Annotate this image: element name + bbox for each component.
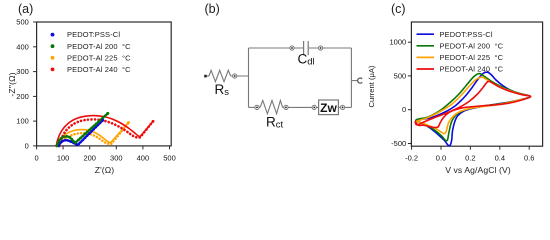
- svg-text:Zw: Zw: [320, 101, 337, 115]
- svg-text:Current (μA): Current (μA): [367, 65, 376, 107]
- terminal before Rct: [255, 105, 259, 109]
- wire Rs to node: [231, 75, 249, 77]
- orange data dots: [59, 123, 128, 146]
- red data dots: [60, 119, 153, 146]
- svg-text:500: 500: [394, 71, 407, 80]
- svg-text:PEDOT-Al 200 °C: PEDOT-Al 200 °C: [67, 42, 131, 51]
- svg-text:300: 300: [110, 154, 123, 163]
- wire Rct to Zw: [283, 106, 319, 108]
- svg-text:PEDOT-Al 240 °C: PEDOT-Al 240 °C: [67, 65, 131, 74]
- wire top branch left: [249, 47, 304, 49]
- panel a curves: [56, 112, 154, 146]
- terminal before Zw: [312, 105, 316, 109]
- svg-text:0.2: 0.2: [465, 154, 475, 163]
- svg-text:-Z''(Ω): -Z''(Ω): [7, 72, 17, 96]
- node right junction wire: [350, 48, 352, 107]
- red CV loop: [415, 81, 530, 127]
- wire Zw to right junction: [338, 106, 351, 108]
- svg-text:PEDOT-Al 225 °C: PEDOT-Al 225 °C: [67, 53, 131, 62]
- svg-text:PEDOT:PSS-Cl: PEDOT:PSS-Cl: [67, 30, 120, 39]
- orange fit line: [57, 122, 129, 146]
- svg-text:-500: -500: [391, 139, 406, 148]
- svg-text:-0.2: -0.2: [405, 154, 418, 163]
- svg-text:200: 200: [83, 154, 96, 163]
- svg-text:(a): (a): [18, 2, 33, 16]
- svg-text:PEDOT-Al 240 °C: PEDOT-Al 240 °C: [440, 65, 504, 74]
- svg-text:200: 200: [16, 92, 29, 101]
- svg-text:400: 400: [137, 154, 150, 163]
- panel a tick labels: [35, 154, 176, 163]
- wire top branch right: [308, 47, 351, 49]
- resistor Rs: [209, 70, 231, 81]
- panel c legend: [417, 34, 435, 69]
- terminal before Cdl: [290, 46, 294, 50]
- svg-text:500: 500: [16, 18, 29, 27]
- svg-text:PEDOT-Al 200 °C: PEDOT-Al 200 °C: [440, 41, 504, 50]
- panel a legend: [51, 30, 132, 74]
- svg-text:Z'(Ω): Z'(Ω): [95, 165, 115, 175]
- wire from input dot to Rs: [207, 75, 209, 77]
- svg-text:0.4: 0.4: [495, 154, 505, 163]
- svg-text:(c): (c): [391, 2, 406, 16]
- terminal after Zw: [341, 105, 345, 109]
- Warburg element Zw box: [319, 100, 339, 115]
- svg-text:0: 0: [35, 154, 39, 163]
- panel c tick labels: [405, 154, 534, 163]
- svg-text:0: 0: [402, 105, 406, 114]
- capacitor Cdl: [304, 41, 309, 55]
- terminal after Cdl: [319, 46, 323, 50]
- terminal after Rs: [233, 74, 237, 78]
- svg-text:0.6: 0.6: [524, 154, 534, 163]
- panel c ticks: [408, 42, 529, 150]
- blue curve: [59, 120, 103, 146]
- svg-text:400: 400: [16, 42, 29, 51]
- panel a ticks: [33, 22, 169, 149]
- svg-text:PEDOT-Al 225 °C: PEDOT-Al 225 °C: [440, 53, 504, 62]
- output open terminal C: [358, 78, 363, 83]
- svg-text:1000: 1000: [390, 38, 407, 47]
- svg-text:300: 300: [16, 67, 29, 76]
- orange CV loop: [416, 77, 531, 134]
- node left junction wire: [248, 48, 250, 107]
- blue CV loop: [416, 72, 531, 145]
- svg-text:0.0: 0.0: [436, 154, 446, 163]
- output stub wire: [351, 80, 357, 82]
- terminal after Rct: [284, 105, 288, 109]
- svg-text:PEDOT:PSS-Cl: PEDOT:PSS-Cl: [440, 30, 493, 39]
- green CV loop: [416, 74, 531, 141]
- resistor Rct: [260, 100, 283, 113]
- svg-text:0: 0: [25, 141, 29, 150]
- svg-text:100: 100: [57, 154, 70, 163]
- svg-text:500: 500: [163, 154, 176, 163]
- svg-text:(b): (b): [205, 2, 220, 16]
- red fit line: [56, 116, 153, 146]
- svg-text:V vs Ag/AgCl (V): V vs Ag/AgCl (V): [445, 165, 511, 175]
- wire bottom branch left: [249, 106, 261, 108]
- input terminal dot: [204, 75, 207, 78]
- curve end markers: [101, 119, 104, 122]
- svg-text:100: 100: [16, 117, 29, 126]
- green curve: [57, 113, 108, 145]
- panel c CV curves: [415, 72, 530, 145]
